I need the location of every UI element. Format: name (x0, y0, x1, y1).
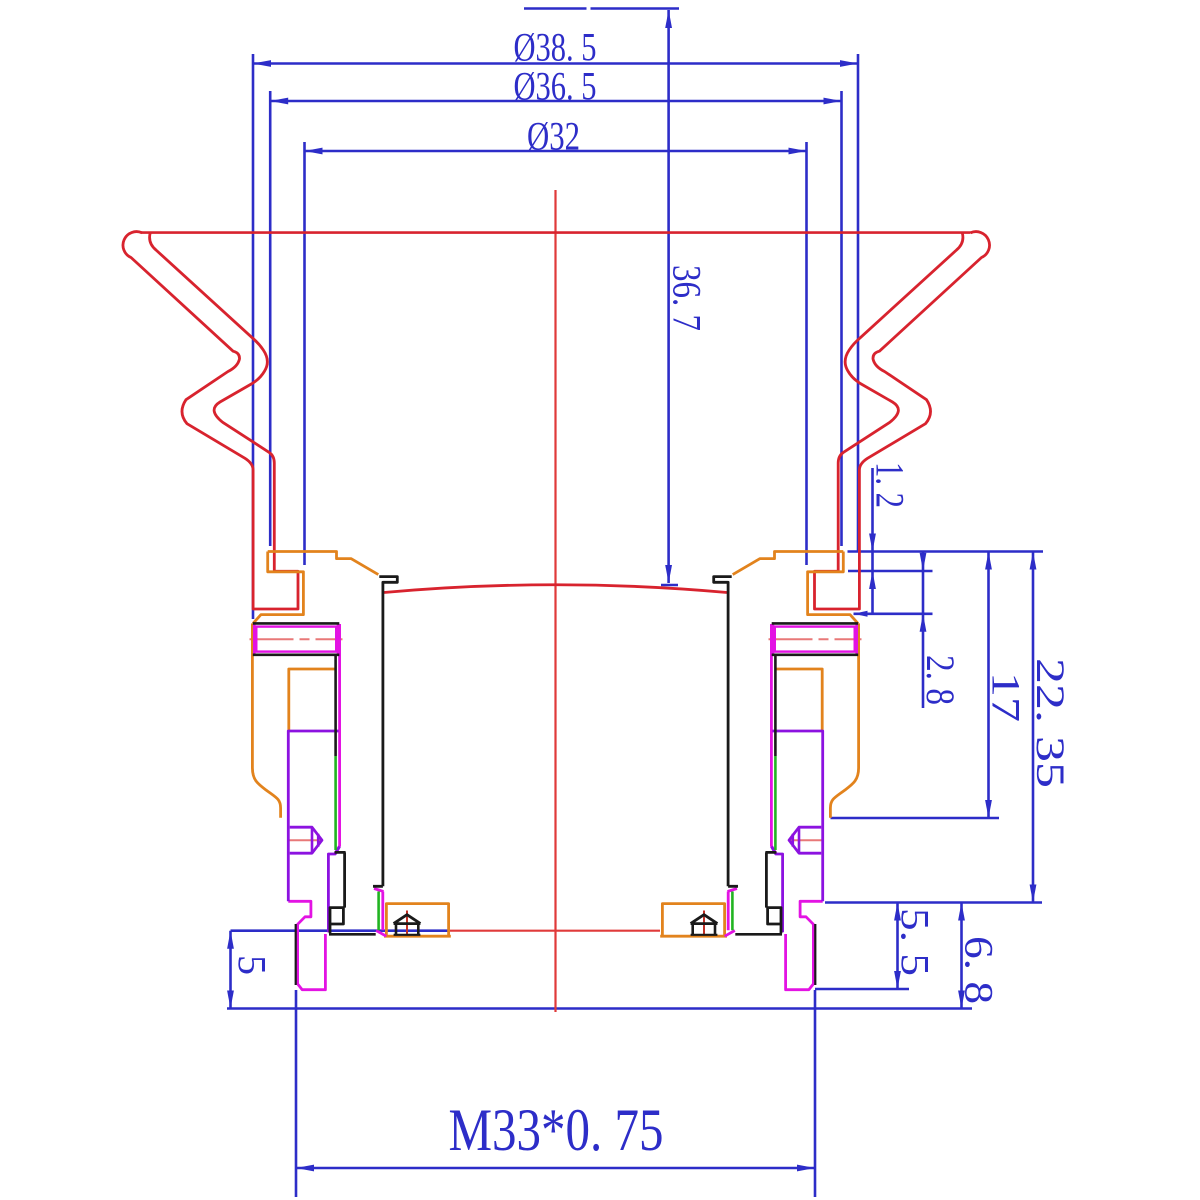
rubber hood left bellows (123, 232, 298, 609)
dimension 1.2 vertical line (869, 468, 876, 614)
dimension 2.8 label (918, 655, 963, 705)
dimension 36.7 label (665, 265, 710, 331)
orange inner shoulder right (776, 669, 822, 731)
set screw axis left (406, 911, 408, 938)
dimension 5 label (230, 955, 275, 975)
orange pcb box left (384, 904, 451, 937)
dimension 6.8 vertical line (958, 903, 965, 1009)
barrel bottom face right (735, 933, 782, 936)
knurl top and bottom edges left (253, 623, 339, 654)
green seam left inner (377, 892, 380, 931)
svg-text:5: 5 (230, 955, 275, 975)
dimension 5.5 label (893, 908, 938, 976)
orange pcb box right (660, 904, 727, 937)
black seam right (774, 655, 777, 756)
dimension Ø32 extension lines (305, 142, 807, 565)
knurled ring left (254, 623, 338, 654)
dimension Ø38.5 extension lines (253, 54, 858, 619)
screw axis right (789, 839, 825, 841)
svg-text:36. 7: 36. 7 (665, 265, 710, 331)
reference tick y=571 (848, 570, 933, 573)
lens barrel left wall (373, 577, 397, 887)
focus helicoid right (772, 731, 822, 901)
svg-text:17: 17 (984, 672, 1029, 722)
dimension 22.35 label (1028, 658, 1073, 788)
screw left (290, 827, 322, 853)
set screw axis right (703, 911, 705, 938)
magenta edge ticks right (725, 889, 737, 937)
black inner step right (765, 852, 781, 933)
set screw head left (394, 915, 421, 935)
dimension 6.8 label (957, 936, 1002, 1004)
magenta sleeve right (771, 624, 776, 853)
dimension M33 extension lines (296, 990, 815, 1197)
green seam left outer (334, 756, 337, 850)
dimension 5.5 vertical line (894, 903, 901, 990)
dimension 5 vertical line (227, 931, 234, 1009)
reference tick y=613.8 (854, 611, 933, 617)
svg-text:Ø36. 5: Ø36. 5 (514, 64, 597, 109)
svg-text:Ø32: Ø32 (527, 114, 580, 159)
dimension M33*0.75 label (449, 1097, 664, 1163)
svg-text:2. 8: 2. 8 (918, 655, 963, 705)
purple inner wall right (771, 847, 782, 933)
green seam right outer (774, 756, 777, 850)
black seam left (334, 655, 337, 756)
magenta edge ticks left (374, 889, 386, 937)
dimension Ø32 label (527, 114, 580, 159)
dimension 17 label (984, 672, 1029, 722)
knurled ring right (773, 623, 857, 654)
foot shadow line left (295, 924, 297, 985)
mount foot right (786, 901, 823, 989)
reference tick y=818 (831, 817, 1000, 820)
foot shadow line right (814, 924, 816, 985)
knurl centerline right (769, 638, 862, 640)
front retainer ring right (733, 552, 859, 818)
svg-text:22. 35: 22. 35 (1028, 658, 1073, 788)
svg-text:5. 5: 5. 5 (893, 908, 938, 976)
reference line y=551.5 (848, 550, 1044, 553)
reference line y=989 (815, 988, 909, 991)
axis line y=930.7 red part (448, 930, 660, 932)
svg-text:1. 2: 1. 2 (868, 462, 913, 508)
front retainer ring left (252, 552, 378, 818)
centerline vertical axis (554, 190, 556, 1012)
svg-text:6. 8: 6. 8 (957, 936, 1002, 1004)
dimension Ø36.5 label (514, 64, 597, 109)
dimension Ø38.5 line (253, 60, 858, 67)
knurl top and bottom edges right (772, 623, 859, 654)
dimension M33 line (296, 1165, 815, 1172)
reference line y=930.7 blue part (231, 929, 449, 932)
green seam right inner (731, 892, 734, 931)
dimension 17 vertical line (985, 552, 992, 819)
dimension Ø36.5 line (270, 98, 841, 105)
barrel bottom face left (329, 933, 376, 936)
screw axis left (287, 839, 323, 841)
dimension 36.7 vertical line (661, 10, 678, 585)
black inner step left (330, 852, 346, 933)
rubber hood top edge (141, 231, 971, 234)
dimension top reference line (cropped) (524, 7, 679, 10)
lens barrel right wall (714, 577, 738, 887)
dimension Ø38.5 label (514, 25, 597, 70)
orange inner shoulder left (289, 669, 335, 731)
svg-text:M33*0. 75: M33*0. 75 (449, 1097, 664, 1163)
rubber hood right bellows (815, 232, 990, 609)
dimension 1.2 label (868, 462, 913, 508)
knurl centerline left (250, 638, 343, 640)
baseline y=1008.5 (227, 1007, 972, 1010)
purple inner wall left (328, 847, 339, 933)
set screw head right (691, 915, 718, 935)
mount foot left (288, 901, 325, 989)
magenta sleeve left (335, 624, 340, 853)
lens front surface (384, 585, 727, 593)
screw right (789, 827, 821, 853)
dimension 2.8 vertical line (920, 552, 927, 709)
dimension Ø36.5 extension lines (270, 91, 841, 546)
dimension Ø32 line (305, 148, 807, 155)
reference line y=902.5 (825, 901, 1042, 904)
focus helicoid left (288, 731, 338, 901)
dimension 22.35 vertical line (1030, 552, 1037, 903)
